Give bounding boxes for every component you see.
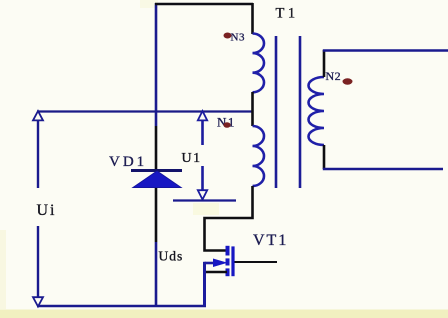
red polarity dot N3: [224, 33, 232, 39]
red polarity dot N1: [223, 122, 230, 128]
source lead down to rail: [203, 262, 206, 306]
svg-text:VT1: VT1: [253, 232, 288, 249]
wire: N2 bottom lead: [323, 145, 326, 169]
wire: clamp branch vertical (x=156) top part, navy then black: [155, 3, 158, 126]
svg-text:VD1: VD1: [109, 154, 147, 170]
wire: N2 top lead: [323, 50, 326, 77]
wire: transformer left vertical x=252.5 (top segment, black): [251, 3, 254, 34]
wire: between rail and N1: [251, 113, 254, 126]
U1 voltage indicator: top arrow at rail: [198, 111, 207, 120]
svg-text:Uds: Uds: [159, 249, 184, 264]
transformer core line 2: [299, 36, 302, 188]
svg-text:Ui: Ui: [37, 202, 57, 219]
channel segment drain: [226, 246, 230, 256]
svg-text:N2: N2: [326, 69, 342, 83]
wire: bottom rail Ui- from left arrow to MOSFET source: [37, 305, 206, 307]
wire: N1 bottom to MOSFET drain: [205, 186, 253, 251]
channel segment source: [226, 268, 230, 276]
svg-text:N3: N3: [231, 32, 245, 44]
arrow up (Ui top): [33, 111, 43, 120]
arrow down (Ui bottom): [33, 297, 43, 306]
winding N2 (secondary): [309, 77, 325, 145]
winding N3 (reset winding): [253, 34, 265, 93]
svg-text:U1: U1: [182, 151, 202, 166]
svg-text:T1: T1: [276, 6, 299, 22]
gate bar: [231, 246, 234, 276]
U1 indicator lower shaft + down arrow: [201, 166, 204, 191]
channel segment body: [226, 258, 230, 265]
node Ui voltage indicator line (left): [37, 119, 39, 188]
wire: clamp branch below diode down to bottom rail: [155, 188, 158, 242]
gate lead: [235, 261, 278, 263]
winding N1 (primary): [253, 126, 265, 186]
diode VD1: [131, 171, 182, 188]
transformer core line 1: [275, 36, 278, 188]
source stub: [205, 271, 228, 274]
transistor Q VT1 (power MOSFET): [205, 246, 278, 306]
U1 reference bar: [173, 199, 236, 201]
wire: between N3 and rail: [251, 92, 254, 113]
body arrow: [205, 262, 217, 265]
wire: top rail Ui+ from left arrow to transformer node: [37, 110, 253, 112]
red polarity dot N2: [343, 78, 353, 84]
wire: top horizontal of clamp loop: [155, 3, 253, 6]
